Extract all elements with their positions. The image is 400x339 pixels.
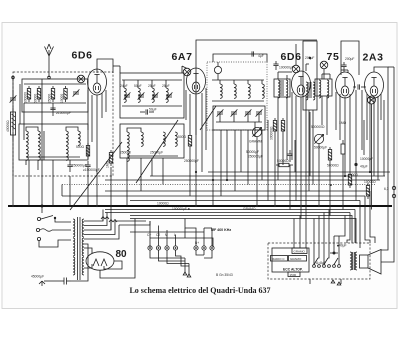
shield box: interstage lower sub-box (120, 124, 184, 158)
power transformer T1 core (78, 217, 81, 280)
wire: box B to V4 plate (341, 70, 348, 73)
capacitor 4uF on osc rail (252, 51, 264, 58)
power transformer T1 secondary winding mid (82, 238, 84, 256)
wire: bus bends right group (334, 201, 360, 249)
junction node on ground bus (41, 205, 44, 208)
shield box: tall box B with 200uF (341, 41, 359, 75)
grid cap of V1 (77, 75, 85, 83)
svg-text:10000Ω: 10000Ω (157, 202, 169, 206)
ground arrow at filter cap (39, 281, 58, 286)
tube V1 6D6 RF amplifier envelope (88, 69, 107, 95)
coil L20 osc (262, 80, 264, 98)
node dots upper (195, 57, 371, 207)
wire: rectifier output drop (100, 240, 135, 278)
svg-text:300000Ω: 300000Ω (270, 126, 274, 140)
capacitor 100000uF vertical (273, 61, 278, 70)
wire: bus line 5 (105, 190, 370, 192)
wire: box1 drop 3 (69, 176, 71, 206)
wire: bus line 3 (105, 179, 380, 181)
terminal P2 (202, 238, 206, 250)
wire: R11 drop (329, 163, 331, 216)
terminal P1 (194, 238, 198, 250)
wire: box1 cap drop (61, 185, 63, 197)
grid cap of V2 (183, 68, 191, 76)
wire: box2 drop 1 (126, 158, 128, 206)
gang tuning link 3 (200, 106, 216, 130)
shield box: oscillator section (dotted) (207, 62, 267, 130)
wire: V4 grid lead (323, 69, 325, 79)
tube V3 6D6 IF amplifier envelope (292, 71, 311, 97)
wire: box2 lower rail (127, 155, 178, 157)
switch contacts row in output unit (313, 258, 341, 267)
wire: far right top loop (388, 66, 394, 68)
resistor R9 (281, 118, 284, 134)
tone potentiometer (314, 134, 323, 143)
terminal P3 (210, 238, 214, 250)
resistor R4 (51, 86, 54, 102)
connector block GRAMO2 (289, 256, 307, 262)
capacitor 150000uF (50, 103, 55, 116)
gang tuning link 2 (136, 120, 178, 183)
svg-text:■40μF: ■40μF (337, 244, 347, 248)
capacitor dot 40uF (354, 163, 367, 169)
wire: dotted AVC bus (62, 184, 375, 186)
svg-text:2A3: 2A3 (362, 52, 383, 64)
wire: mid drops to terminal strip (150, 219, 212, 239)
wire: det area verticals (268, 120, 295, 210)
svg-text:6A7: 6A7 (171, 51, 192, 63)
wire: box2 mid rail (122, 105, 182, 107)
svg-text:B+: B+ (195, 241, 199, 245)
tube V4 75 detector envelope (336, 72, 355, 98)
svg-text:100000μF: 100000μF (279, 66, 294, 70)
coil L3 (26, 146, 28, 160)
svg-text:40μF: 40μF (360, 165, 368, 169)
svg-text:C+: C+ (147, 233, 151, 237)
wire: R8 drops (275, 134, 283, 206)
wire: osc mid rail (212, 100, 264, 102)
tube V2 6A7 converter envelope (187, 68, 206, 94)
svg-text:250000: 250000 (120, 151, 131, 155)
diode transformer windings (319, 80, 329, 98)
svg-text:300000: 300000 (24, 92, 28, 103)
wire: switch drop from ground bus (41, 206, 43, 213)
svg-text:GRAMO: GRAMO (294, 249, 306, 253)
wire: antenna down-lead to ground bus (41, 79, 43, 206)
shield box: output/speaker unit (dashed) (268, 243, 370, 279)
wire: bus line 2 (150, 175, 385, 177)
capacitor C main filter (58, 278, 71, 285)
terminal L (173, 238, 177, 250)
wire: bus line 10 (130, 215, 345, 217)
svg-text:75: 75 (327, 51, 340, 63)
coil L14 (127, 147, 129, 161)
svg-text:10000Ω: 10000Ω (364, 180, 376, 184)
coil L6 (78, 131, 80, 145)
wire: terminal drops (150, 250, 189, 274)
power transformer T1 primary winding lower (73, 238, 75, 256)
mains plug contact 3 (37, 237, 40, 240)
svg-text:250000μF: 250000μF (184, 159, 199, 163)
svg-text:GRAMM.: GRAMM. (249, 140, 263, 144)
wire: bus B+ line (208, 171, 390, 173)
wire: L5-L6 links (66, 127, 78, 131)
svg-text:50000: 50000 (34, 94, 38, 103)
wire: IF2 tall box drops (309, 110, 313, 191)
svg-text:250000μF: 250000μF (248, 155, 263, 159)
terminal M (165, 238, 169, 250)
resistor R7 500ohm (86, 143, 89, 159)
resistor R14 1500ohm (348, 172, 351, 188)
wire: V1 screen drop (96, 125, 98, 206)
wire: heater bus 1 (105, 209, 355, 211)
wire: far right rail 1 (381, 75, 388, 250)
svg-text:GRAMO: GRAMO (290, 257, 302, 261)
wire: v2 grid link from box2 (182, 66, 187, 73)
coil L7 (66, 146, 68, 160)
resistor R2 (27, 86, 30, 102)
resistor R10 50000 horizontal (276, 163, 293, 166)
resistor R15 10000ohm (366, 183, 369, 199)
wire: diode box top lead (322, 74, 330, 79)
power transformer T1 secondary winding bottom (82, 257, 84, 275)
power transformer T1 secondary winding top (82, 219, 84, 237)
wire: right mid verticals (364, 100, 384, 176)
wire: interstage coupling drops (356, 90, 362, 201)
wire: R7 drop (87, 172, 89, 206)
gang tuning link 1 (70, 142, 122, 210)
wire: V2 extra pin drops (186, 88, 206, 150)
wire: rectifier anode loop (104, 261, 122, 269)
connector block RADIO (271, 256, 288, 262)
power transformer T1 primary winding lower2 (73, 257, 75, 275)
wire: V1 cathode drops (92, 93, 102, 142)
wire: V2 pin drops (190, 93, 202, 206)
resistor R3 (37, 86, 40, 102)
wire: heater drop left2 (106, 213, 108, 219)
node: antenna entry (48, 76, 51, 79)
wire: antenna coil links (26, 131, 44, 170)
wire: R6 drop (110, 167, 112, 230)
shield box: antenna coil assembly (22, 79, 88, 112)
antenna (45, 44, 54, 77)
wire: rectifier filament tap A (84, 248, 92, 253)
wire: V5 plate loop to right rail (374, 67, 388, 75)
dial lamp (368, 96, 376, 104)
wire: V5 pin drops (370, 96, 378, 180)
wire: V5 heater drops (367, 94, 381, 140)
wire: V4 extra pin drop (335, 92, 337, 130)
trimmer bank in padder sub-box (216, 109, 262, 122)
capacitor at box1 bottom (67, 160, 72, 172)
shield box: oscillator padder sub-box (213, 106, 265, 130)
resistor R5 (64, 86, 67, 102)
wire: far right rail 2 (381, 67, 394, 262)
wire: lamp drop (371, 104, 373, 210)
wire: tone pot drop (318, 144, 320, 206)
capacitor 50uF coupling (140, 109, 154, 114)
wire: bus line 6 (62, 195, 365, 197)
coil L13 (141, 132, 143, 146)
wire: terminal top rail (150, 238, 213, 247)
shield box: IF transformer 1 (274, 79, 290, 97)
wire: left edge vertical (12, 77, 14, 206)
wire: main ground bus (thick) (8, 205, 392, 207)
node on left edge (12, 76, 15, 79)
coil L18 osc (234, 80, 236, 98)
wire: osc top rail (212, 79, 264, 81)
capacitor det coupling (287, 150, 292, 162)
padder capacitor circle (214, 62, 221, 80)
trimmer capacitor on antenna lead (10, 90, 17, 103)
IF1 windings (278, 80, 288, 98)
coil L2 (38, 131, 40, 145)
svg-text:GRAMO: GRAMO (243, 207, 256, 211)
coil L17 osc (220, 80, 222, 98)
wire: box1 top rail (24, 83, 86, 85)
wire: bus down to speaker (365, 191, 375, 243)
wire: bus bends into output unit (294, 210, 339, 265)
coil L15 (163, 132, 165, 146)
coil L16 (175, 132, 177, 146)
wire: IF1 drops (278, 97, 287, 180)
wire: left inner vertical pair (20, 84, 24, 140)
wire: R13 drop (189, 149, 191, 196)
wire: V1 extra pin drops (88, 90, 106, 130)
wire: V1 grid loop to coil box (97, 59, 113, 73)
wire: L12-L13 top links (127, 128, 141, 132)
wire: tap arrows (101, 217, 117, 223)
wire: oscillator inner rail (213, 54, 267, 62)
inner wire frame of output unit (272, 248, 309, 272)
shield box: IF transformer 2 (tall) (303, 41, 317, 110)
capacitor 100000uF at osc top (295, 44, 297, 48)
coil L11 with trimmer (166, 80, 173, 102)
connector block GRAMO (292, 248, 307, 254)
wire: contact2 to transformer (52, 229, 71, 231)
svg-text:Lo schema elettrico del Quadri: Lo schema elettrico del Quadri-Unda 637 (129, 286, 270, 295)
wire: V3 pin drops (296, 95, 306, 219)
terminal C+ (148, 246, 152, 250)
wire: V3 plate to tall box (306, 64, 309, 71)
coil L19 osc (248, 80, 250, 98)
svg-text:B Gn 35/43: B Gn 35/43 (216, 273, 233, 277)
pin plug arrows (183, 272, 191, 277)
svg-text:6D6: 6D6 (280, 51, 301, 63)
svg-text:MF 460 KHz: MF 460 KHz (211, 228, 231, 232)
svg-text:45000μF: 45000μF (31, 275, 44, 279)
wire: bus line 7 (130, 200, 360, 202)
wire: tap 4 (84, 221, 115, 235)
capacitor 200uF in box B (341, 62, 346, 72)
wire: contact1 to transformer (55, 218, 71, 222)
svg-text:250000μF: 250000μF (72, 164, 87, 168)
wire: box2 drop 4 (162, 158, 164, 185)
svg-text:ECC ALTOP.: ECC ALTOP. (283, 268, 303, 272)
svg-text:1500: 1500 (290, 273, 297, 277)
loudspeaker magnet (360, 255, 369, 268)
wire: box1 drop 2 (52, 160, 54, 206)
wire: tap 3 (84, 221, 111, 230)
grid cap of V4 (320, 61, 328, 69)
heater terminal circles right (384, 186, 396, 197)
svg-text:50μF: 50μF (149, 108, 157, 112)
wire: lower coil rail (26, 156, 80, 158)
wire: output unit bottom exits (310, 279, 341, 285)
coil L4 (38, 146, 40, 160)
wire: V4 pin drops (340, 94, 350, 176)
resistor R8 300000 (273, 118, 276, 134)
resistor R11 50000 (328, 147, 331, 163)
wire: tap rails to terminals (103, 218, 212, 238)
capacitor on cathode (85, 161, 90, 172)
wire: bus line 11 (130, 218, 340, 220)
svg-text:80: 80 (115, 249, 127, 260)
svg-text:40000Ω: 40000Ω (6, 120, 10, 132)
wire: oscillator top rail (196, 40, 317, 135)
mains switch contact 1 (37, 216, 56, 221)
wire: pot drop (256, 137, 258, 206)
svg-text:10000: 10000 (60, 94, 64, 103)
wire: heater drop left (102, 210, 104, 219)
wire: HT tap 2 (84, 218, 107, 226)
wire: rectifier filament tap B (84, 264, 92, 268)
resistor R13 500ohm 6A7 (188, 133, 191, 149)
wire: contact3 riser (39, 240, 71, 247)
svg-text:M: M (165, 233, 168, 237)
svg-text:500Ω: 500Ω (76, 145, 85, 149)
shield box: diode transformer (315, 79, 332, 96)
resistor R1 40000 ohm (antenna shunt) (10, 108, 15, 140)
wire: box2 top rail (122, 79, 182, 81)
IF2 windings (306, 82, 315, 100)
shield box: interstage coil section (120, 73, 184, 118)
wire: V3 grid lead (295, 48, 297, 65)
trimmer cap antenna section (73, 89, 80, 96)
wire: L1-L2 links (26, 127, 38, 131)
wire: HT tap 1 (84, 218, 103, 221)
coil L12 (127, 132, 129, 146)
node dots on buses (12, 205, 320, 207)
wire: box2 drop 3 (151, 158, 153, 176)
rectifier tube V6 type 80 envelope (86, 252, 114, 270)
wire: osc extra verticals (221, 130, 262, 196)
resistor R12 1M box (341, 140, 345, 158)
wire: IF1 top leads (278, 72, 292, 79)
wire: R12 drop (342, 158, 344, 210)
wire: osc box drops (213, 122, 255, 206)
mains plug contact 2 (36, 228, 52, 231)
wire: diode transformer drops (322, 96, 327, 135)
power transformer T1 primary winding (73, 219, 75, 237)
wire: top rail links into tubes (113, 66, 120, 73)
capacitor with dot in output unit (330, 252, 338, 255)
output transformer T2 windings (350, 252, 357, 270)
svg-text:200μF: 200μF (345, 57, 354, 61)
svg-text:4μF: 4μF (258, 54, 264, 58)
block 1500 (288, 272, 300, 277)
volume potentiometer (252, 127, 261, 136)
shield box: RF input section (dashed) (13, 72, 113, 176)
coil L1 RF primary (26, 131, 28, 145)
svg-text:6D6: 6D6 (71, 50, 92, 62)
tube V5 2A3 output envelope (365, 72, 384, 98)
wire: heater bus 2 (105, 212, 350, 214)
wire: box1 drop 1 (28, 160, 30, 206)
svg-text:25000: 25000 (48, 94, 52, 103)
capacitor coupling 75 to 2A3 (353, 84, 366, 89)
grid cap of V3 (292, 65, 300, 73)
wire: terminal right drops (196, 250, 212, 258)
terminal C2 (156, 238, 160, 250)
coil L8 with trimmer (124, 80, 131, 102)
svg-text:100000μF ■: 100000μF ■ (172, 207, 190, 211)
svg-text:50000Ω: 50000Ω (327, 164, 339, 168)
svg-text:50000μF: 50000μF (314, 146, 327, 150)
svg-text:1500Ω: 1500Ω (348, 173, 358, 177)
svg-text:6,3: 6,3 (384, 187, 389, 191)
shield box: RF coil lower sub-box (19, 124, 88, 160)
coil L10 with trimmer (152, 80, 159, 102)
wire: box1 bottom rail (24, 102, 86, 104)
svg-text:≥15000μF: ≥15000μF (56, 111, 71, 115)
wire: tap 5 (84, 225, 119, 239)
wire: box2 drop 2 (140, 158, 142, 191)
svg-text:500Ω: 500Ω (178, 135, 187, 139)
loudspeaker cone (368, 250, 381, 275)
coil L9 with trimmer (138, 80, 145, 102)
resistor R6 1M vertical (109, 150, 112, 166)
svg-text:RADIO C: RADIO C (272, 257, 285, 261)
wire: HT centre tap line (71, 244, 88, 281)
wire: rect output to bus (134, 219, 136, 241)
coil L5 (66, 131, 68, 145)
wire: V3 extra pin drops (292, 92, 310, 176)
wire: MF rail (130, 231, 204, 233)
